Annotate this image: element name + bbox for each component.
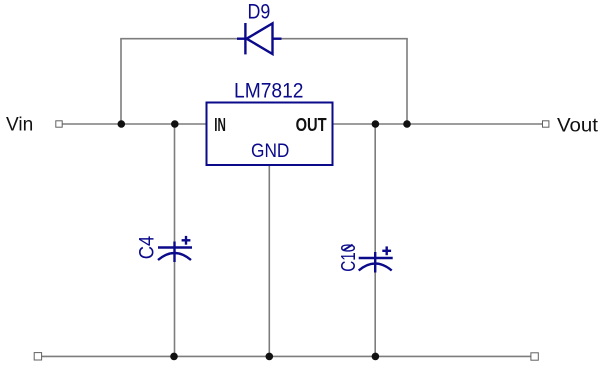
junction dot C10 bottom	[372, 353, 380, 361]
junction dot Vout loop	[403, 120, 411, 128]
svg-text:D9: D9	[248, 1, 271, 24]
label C10 slashed zero	[343, 245, 352, 251]
svg-text:Vin: Vin	[6, 115, 33, 136]
junction dot C10 top	[372, 120, 380, 128]
wire bypass loop left vertical	[120, 39, 122, 124]
junction dot C4 top	[171, 120, 179, 128]
wire top rail left segment	[62, 123, 206, 125]
wire C10 branch lower	[374, 272, 376, 357]
wire bypass loop top left of diode	[120, 38, 238, 40]
terminal square ground left	[34, 353, 41, 360]
svg-text:OUT: OUT	[296, 115, 327, 135]
wire bottom ground rail	[41, 355, 531, 357]
junction dot C4 bottom	[170, 353, 178, 361]
wire C10 branch upper	[374, 124, 376, 254]
wire top rail right segment	[333, 123, 544, 125]
svg-text:Vout: Vout	[557, 116, 599, 137]
terminal square Vin	[56, 121, 62, 127]
svg-text:C10: C10	[338, 244, 360, 272]
svg-text:LM7812: LM7812	[234, 79, 304, 102]
wire bypass loop right vertical	[406, 39, 408, 124]
junction dot Vin loop	[118, 120, 126, 128]
capacitor C4	[158, 236, 192, 262]
op-amp U1 regulator box LM7812	[207, 103, 333, 166]
diode D9	[237, 23, 282, 54]
wire C4 branch lower	[174, 261, 176, 356]
terminal square Vout	[543, 121, 549, 127]
wire bypass loop top right of diode	[281, 38, 408, 40]
terminal square ground right	[531, 353, 538, 360]
svg-text:GND: GND	[251, 140, 289, 162]
wire C4 branch upper	[174, 124, 176, 243]
wire GND pin of U1 to ground rail	[268, 165, 270, 356]
junction dot GND bottom	[266, 353, 274, 361]
capacitor C10	[359, 246, 393, 272]
svg-text:IN: IN	[214, 115, 226, 135]
svg-text:C4: C4	[136, 236, 159, 260]
